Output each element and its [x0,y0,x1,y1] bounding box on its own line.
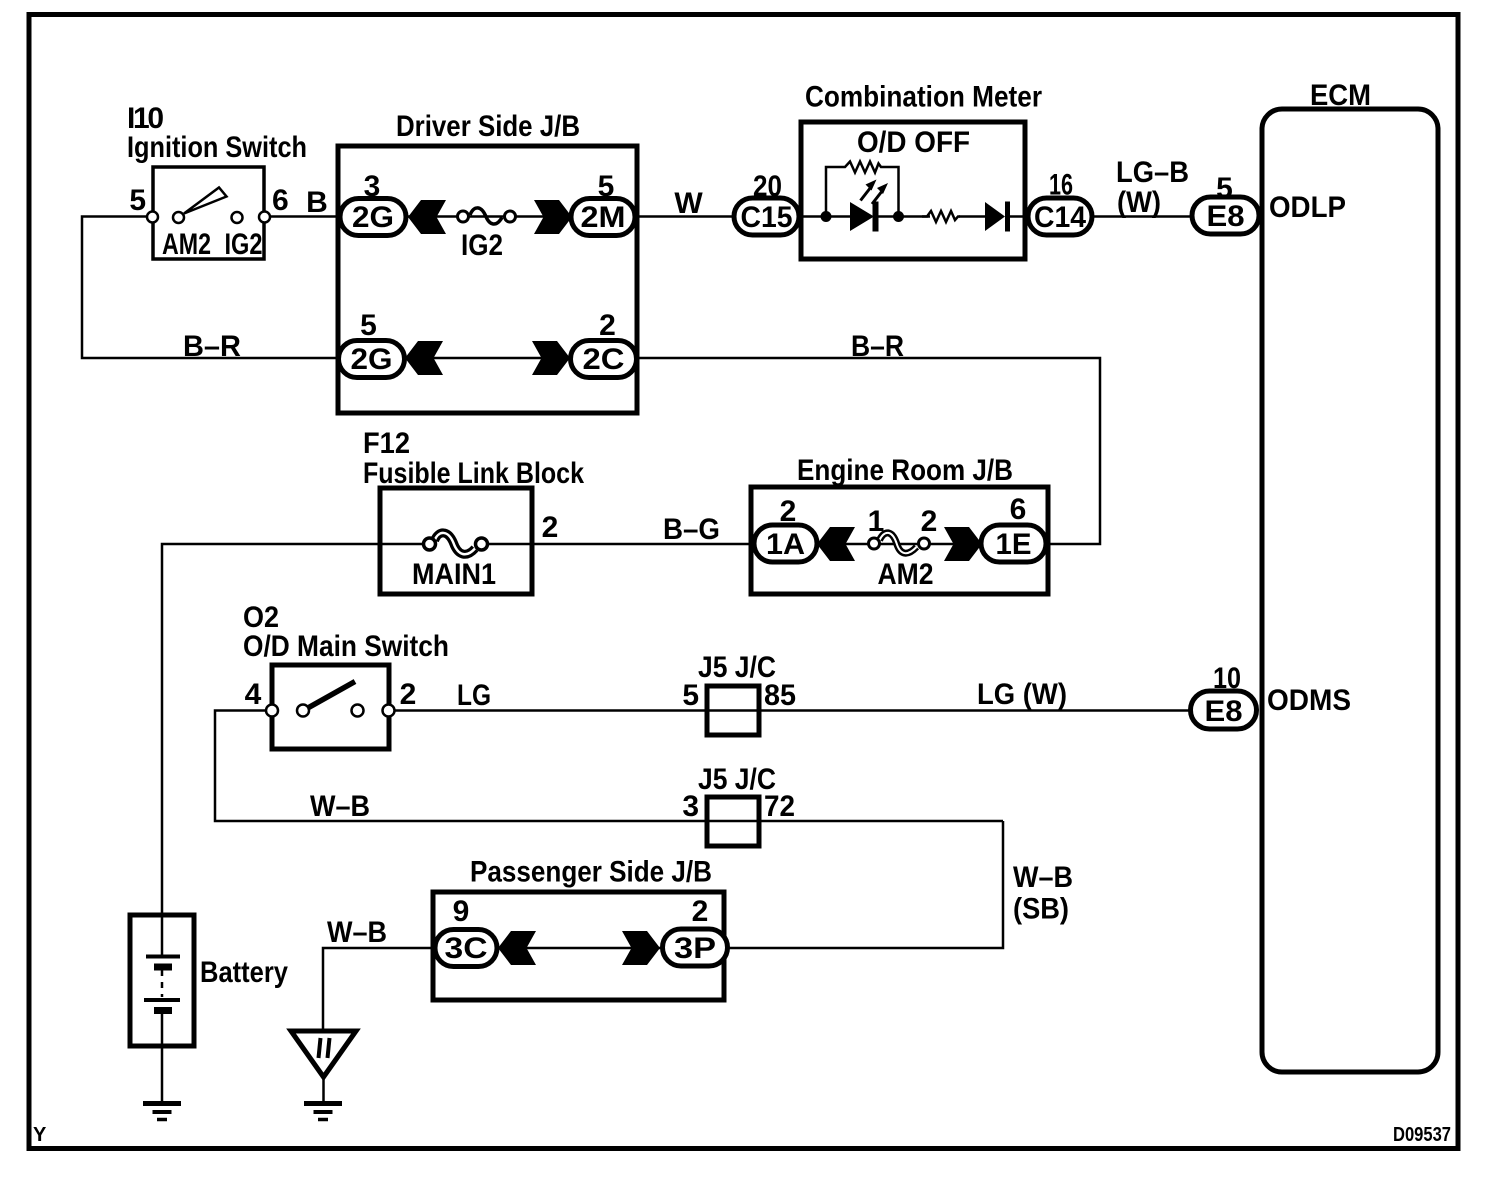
O/D switch terminals [266,705,278,717]
svg-text:3: 3 [364,170,381,203]
connector C15 pin20 [734,198,799,235]
wire: 2C to engine room 1E (B-R) [636,358,1100,544]
svg-text:Fusible Link Block: Fusible Link Block [363,457,584,490]
connector 2G pin5 row2 [339,341,405,378]
svg-text:Driver Side J/B: Driver Side J/B [396,110,580,143]
svg-text:IG2: IG2 [461,229,503,262]
arrow right row1 [534,200,572,234]
wire: driver JB row2 internal [404,357,570,360]
svg-text:B–R: B–R [851,330,904,363]
svg-text:AM2: AM2 [162,228,211,261]
fusible link block F12 box [380,488,532,594]
connector E8 pin10 ODMS [1191,691,1257,729]
svg-text:6: 6 [272,184,289,217]
svg-text:2: 2 [400,678,417,711]
ground battery [143,1101,181,1106]
svg-text:5: 5 [1216,172,1233,205]
O/D switch lever [306,682,355,710]
connector C14 pin16 [1028,198,1092,235]
svg-text:1A: 1A [766,528,805,561]
svg-text:O/D OFF: O/D OFF [857,126,970,159]
svg-text:AM2: AM2 [878,558,934,591]
driver side J/B box [338,146,637,413]
fuse MAIN1 [435,533,476,554]
junction J5 J/C lower box [707,797,759,846]
junction dot right [893,211,904,222]
wire: 3C to ground triangle [323,948,435,1031]
svg-text:Battery: Battery [200,956,288,989]
wire: C14 to E8 ODLP [1092,215,1192,218]
svg-text:ODLP: ODLP [1269,191,1346,224]
wire: engine room JB internal [817,543,982,546]
battery internal wire top [161,915,164,956]
svg-text:Ignition Switch: Ignition Switch [127,131,307,164]
wire: O/D switch pin4 drop to W-B row [215,711,1003,822]
wire: battery to fusible link to 1A (B-G) [162,544,423,915]
ignition switch I10 box [153,167,264,259]
svg-text:IG2: IG2 [225,228,263,261]
svg-text:ODMS: ODMS [1267,684,1351,717]
svg-text:D09537: D09537 [1393,1124,1451,1146]
diode [985,202,1005,231]
svg-text:5: 5 [598,170,615,203]
resistor in meter [922,211,960,222]
wire: ignition pin6 to 2G [265,215,341,218]
svg-text:85: 85 [764,679,796,712]
O/D main switch O2 box [272,665,389,749]
svg-text:1: 1 [868,505,885,538]
svg-text:Combination Meter: Combination Meter [805,81,1042,114]
ignition switch lever [184,188,227,214]
wire: battery bottom to ground [161,1011,164,1101]
svg-text:72: 72 [764,790,795,823]
wire: combination meter internal [799,215,852,218]
svg-text:W: W [674,187,703,220]
svg-text:(SB): (SB) [1013,893,1069,926]
svg-text:3C: 3C [445,932,488,965]
svg-text:3: 3 [682,790,699,823]
LED lamp diode [850,202,874,231]
fuse IG2 [470,208,502,224]
svg-text:LG (W): LG (W) [977,678,1067,711]
svg-text:W–B: W–B [310,790,370,823]
svg-text:W–B: W–B [1013,861,1073,894]
arrow left engine [817,527,855,561]
connector 3C pin9 [435,930,497,967]
svg-text:2: 2 [921,505,938,538]
arrow left row1 [408,200,446,234]
svg-text:6: 6 [1010,493,1027,526]
svg-text:(W): (W) [1117,186,1161,219]
svg-text:2G: 2G [351,343,393,376]
connector 2G pin3 [340,199,406,236]
svg-text:2: 2 [692,895,709,928]
svg-text:2: 2 [542,511,559,544]
connector 2C pin2 [571,341,637,378]
arrow right engine [944,527,982,561]
bypass loop with resistor [826,162,899,215]
svg-text:LG: LG [457,679,491,712]
ignition switch terminals [147,212,158,223]
svg-text:5: 5 [129,184,146,217]
svg-text:ECM: ECM [1310,79,1371,112]
svg-text:9: 9 [453,895,470,928]
fuse AM2 [880,533,917,553]
connector 1A pin2 [754,525,817,562]
svg-text:Passenger Side J/B: Passenger Side J/B [470,856,712,889]
wire: 2M to C15 (W) [635,215,734,218]
battery box [130,915,194,1046]
ground triangle II [291,1031,356,1077]
ECM box [1262,109,1438,1072]
svg-text:LG–B: LG–B [1116,156,1189,189]
arrow right row2 [532,341,570,375]
svg-text:2C: 2C [583,343,625,376]
svg-text:O/D Main Switch: O/D Main Switch [243,630,449,663]
combination meter box [801,122,1025,259]
wire: ignition pin5 to left drop to B-R row [82,217,338,359]
connector 1E pin6 [981,525,1046,562]
svg-text:2: 2 [780,495,797,528]
svg-text:16: 16 [1049,169,1073,202]
wire: driver JB row1 internal [406,215,571,218]
svg-text:E8: E8 [1205,695,1243,728]
wire: O/D switch pin2 to E8 ODMS (LG) [389,709,1192,712]
arrow right passenger [622,931,660,965]
svg-text:MAIN1: MAIN1 [412,558,496,591]
battery plates [146,955,180,959]
arrow left passenger [498,931,536,965]
connector 2M pin5 [571,199,635,236]
connector 3P pin2 [663,929,728,966]
passenger side J/B box [433,892,724,1000]
wire: passenger JB internal [497,947,662,950]
svg-text:2: 2 [599,309,616,342]
svg-text:C14: C14 [1034,201,1086,234]
svg-text:4: 4 [245,678,262,711]
arrow left row2 [405,341,443,375]
connector E8 pin5 ODLP [1192,197,1259,234]
junction dot left [821,211,832,222]
svg-text:B: B [306,186,328,219]
svg-text:Y: Y [33,1124,47,1146]
svg-text:5: 5 [682,679,699,712]
svg-text:B–R: B–R [183,330,241,363]
svg-text:3P: 3P [674,932,716,965]
svg-text:1E: 1E [996,528,1032,561]
ground symbol triangle [304,1101,342,1106]
wire: W-B down to passenger JB 3P [727,821,1003,948]
junction J5 J/C upper box [707,686,759,735]
svg-text:10: 10 [1213,662,1241,695]
svg-text:20: 20 [753,170,782,203]
svg-text:2M: 2M [581,201,626,234]
svg-text:5: 5 [360,309,377,342]
svg-text:C15: C15 [741,201,793,234]
svg-text:Engine Room J/B: Engine Room J/B [797,454,1013,487]
svg-text:W–B: W–B [327,916,387,949]
engine room J/B box [751,487,1048,594]
svg-text:B–G: B–G [663,513,720,546]
battery internal dashed [161,970,164,997]
LED light arrows [861,187,872,201]
svg-text:F12: F12 [363,427,410,460]
svg-text:2G: 2G [352,201,394,234]
